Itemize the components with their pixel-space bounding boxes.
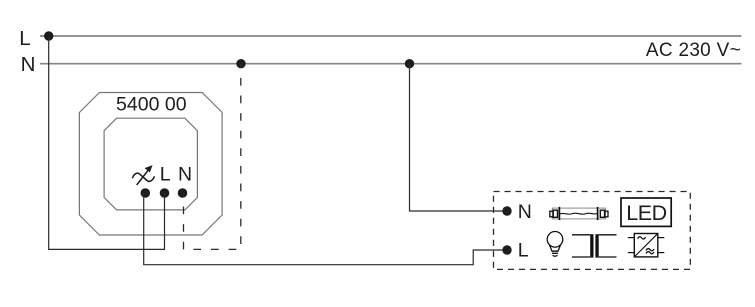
svg-text:N: N (518, 201, 532, 223)
svg-text:L: L (19, 27, 30, 50)
wire L bus (40, 35, 742, 37)
svg-text:N: N (21, 53, 36, 76)
load box (dashed) (494, 192, 691, 270)
terminal dot: load N (502, 206, 511, 215)
junction on L bus (44, 31, 53, 40)
wire L feed: L bus to dimmer L terminal (49, 36, 165, 249)
fluorescent lamp symbol (550, 207, 608, 220)
dimmer U1 inner outline (104, 118, 197, 210)
terminal dot: dimmed output (141, 188, 151, 198)
wire N bus to load N (410, 64, 508, 211)
terminal dot: dimmer N (178, 188, 188, 198)
svg-text:L: L (160, 163, 171, 185)
wire dimmed output to load L (144, 193, 507, 265)
svg-text:5400 00: 5400 00 (116, 94, 187, 116)
incandescent lamp symbol (547, 232, 563, 257)
wire N bus (40, 63, 742, 65)
svg-text:N: N (178, 163, 192, 185)
terminal dot: load L (502, 245, 511, 254)
junction on N bus (load branch) (405, 59, 414, 68)
LED module box (621, 198, 671, 226)
junction on N bus (dashed branch) (236, 59, 245, 68)
dimmer output symbol (tilde with arrow) (132, 169, 154, 185)
transformer symbol (572, 234, 617, 257)
svg-text:L: L (518, 240, 529, 262)
svg-text:LED: LED (626, 201, 667, 225)
electronic transformer symbol (628, 234, 665, 257)
terminal dot: dimmer L (160, 188, 170, 198)
wire N feed dashed: N bus junction to dimmer N terminal (184, 64, 241, 250)
dimmer U1 outer outline (79, 93, 222, 236)
svg-text:AC 230 V~: AC 230 V~ (646, 40, 741, 61)
